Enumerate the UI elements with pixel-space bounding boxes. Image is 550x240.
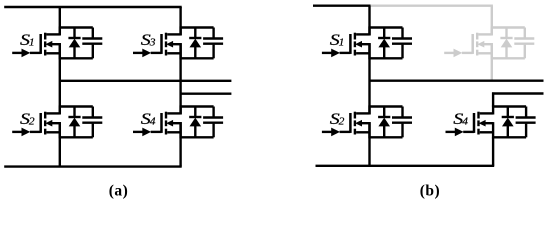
gate drive input arrow S4	[133, 128, 162, 137]
antiparallel diode of S3	[189, 28, 201, 59]
antiparallel diode of S1 of circuit b	[378, 28, 390, 59]
wire parallel branch rails of S4	[181, 105, 214, 138]
wire left bridge leg (b)	[368, 6, 370, 166]
wire output line B (a): right-leg midpoint to right terminal	[181, 92, 232, 94]
snubber capacitor of S3 of circuit b (inactive, greyed)	[514, 28, 534, 59]
svg-text:1: 1	[339, 37, 345, 48]
label S1	[330, 31, 345, 49]
transistor S4 (N-channel MOSFET)	[162, 112, 181, 135]
snubber capacitor of S2	[82, 107, 102, 138]
svg-text:2: 2	[29, 116, 35, 127]
wire parallel branch rails of S4 of circuit b	[493, 105, 526, 138]
svg-text:3: 3	[149, 37, 156, 48]
wire parallel branch rails of S1 of circuit b	[370, 26, 403, 59]
transistor S3 of circuit b (inactive, greyed) (N-channel MOSFET)	[473, 33, 492, 56]
transistor S1 (N-channel MOSFET)	[41, 33, 60, 56]
transistor S2 (N-channel MOSFET)	[41, 112, 60, 135]
wire parallel branch rails of S2	[60, 105, 93, 138]
transistor S3 (N-channel MOSFET)	[162, 33, 181, 56]
antiparallel diode of S2 of circuit b	[378, 107, 390, 138]
svg-text:2: 2	[339, 116, 345, 127]
label S4	[453, 110, 468, 128]
antiparallel diode of S1	[68, 28, 80, 59]
wire right bridge leg (a)	[179, 7, 181, 167]
wire S4 source to bottom rail (b)	[492, 137, 494, 165]
svg-text:(a): (a)	[109, 183, 129, 200]
wire bottom DC rail (a)	[4, 165, 182, 167]
label S2	[330, 110, 345, 128]
wire parallel branch rails of S3 of circuit b (inactive, greyed)	[492, 26, 525, 59]
wire output line A (a): left-leg midpoint to right terminal	[60, 80, 232, 82]
gate drive input arrow S1	[12, 49, 41, 58]
label S2	[20, 110, 35, 128]
svg-text:4: 4	[150, 116, 156, 127]
svg-text:(b): (b)	[420, 183, 440, 200]
label S4	[141, 110, 156, 128]
wire output line A (b): left-leg midpoint to right terminal	[370, 79, 544, 81]
gate drive input arrow S1 of circuit b	[322, 49, 351, 58]
svg-text:4: 4	[462, 116, 468, 127]
wire parallel branch rails of S1	[60, 26, 93, 59]
gate drive input arrow S4 of circuit b	[446, 128, 475, 137]
antiparallel diode of S2	[68, 107, 80, 138]
wire parallel branch rails of S3	[181, 26, 214, 59]
snubber capacitor of S2 of circuit b	[392, 107, 412, 138]
snubber capacitor of S1 of circuit b	[392, 28, 412, 59]
wire output line B (b): S4 drain corner to right terminal	[492, 92, 544, 106]
gate drive input arrow S2	[12, 128, 41, 137]
snubber capacitor of S4	[203, 107, 223, 138]
transistor S2 of circuit b (N-channel MOSFET)	[350, 112, 369, 135]
wire inactive right leg upper segment (b), grey	[491, 6, 493, 80]
wire parallel branch rails of S2 of circuit b	[370, 105, 403, 138]
gate drive input arrow S3 of circuit b (inactive, greyed)	[444, 49, 473, 58]
wire top DC rail (b), active part	[313, 4, 371, 6]
transistor S4 of circuit b (N-channel MOSFET)	[474, 112, 493, 135]
label S3	[141, 31, 156, 49]
transistor S1 of circuit b (N-channel MOSFET)	[350, 33, 369, 56]
antiparallel diode of S3 of circuit b (inactive, greyed)	[500, 28, 512, 59]
snubber capacitor of S4 of circuit b	[516, 107, 536, 138]
snubber capacitor of S3	[203, 28, 223, 59]
gate drive input arrow S2 of circuit b	[322, 128, 351, 137]
wire top DC rail (a)	[4, 6, 182, 8]
svg-text:1: 1	[29, 37, 35, 48]
gate drive input arrow S3	[133, 49, 162, 58]
wire top rail to inactive leg (b), grey	[371, 4, 493, 6]
wire bottom DC rail (b)	[316, 165, 495, 167]
wire left bridge leg (a)	[59, 7, 61, 167]
antiparallel diode of S4	[189, 107, 201, 138]
label S1	[20, 31, 35, 49]
snubber capacitor of S1	[82, 28, 102, 59]
antiparallel diode of S4 of circuit b	[502, 107, 514, 138]
